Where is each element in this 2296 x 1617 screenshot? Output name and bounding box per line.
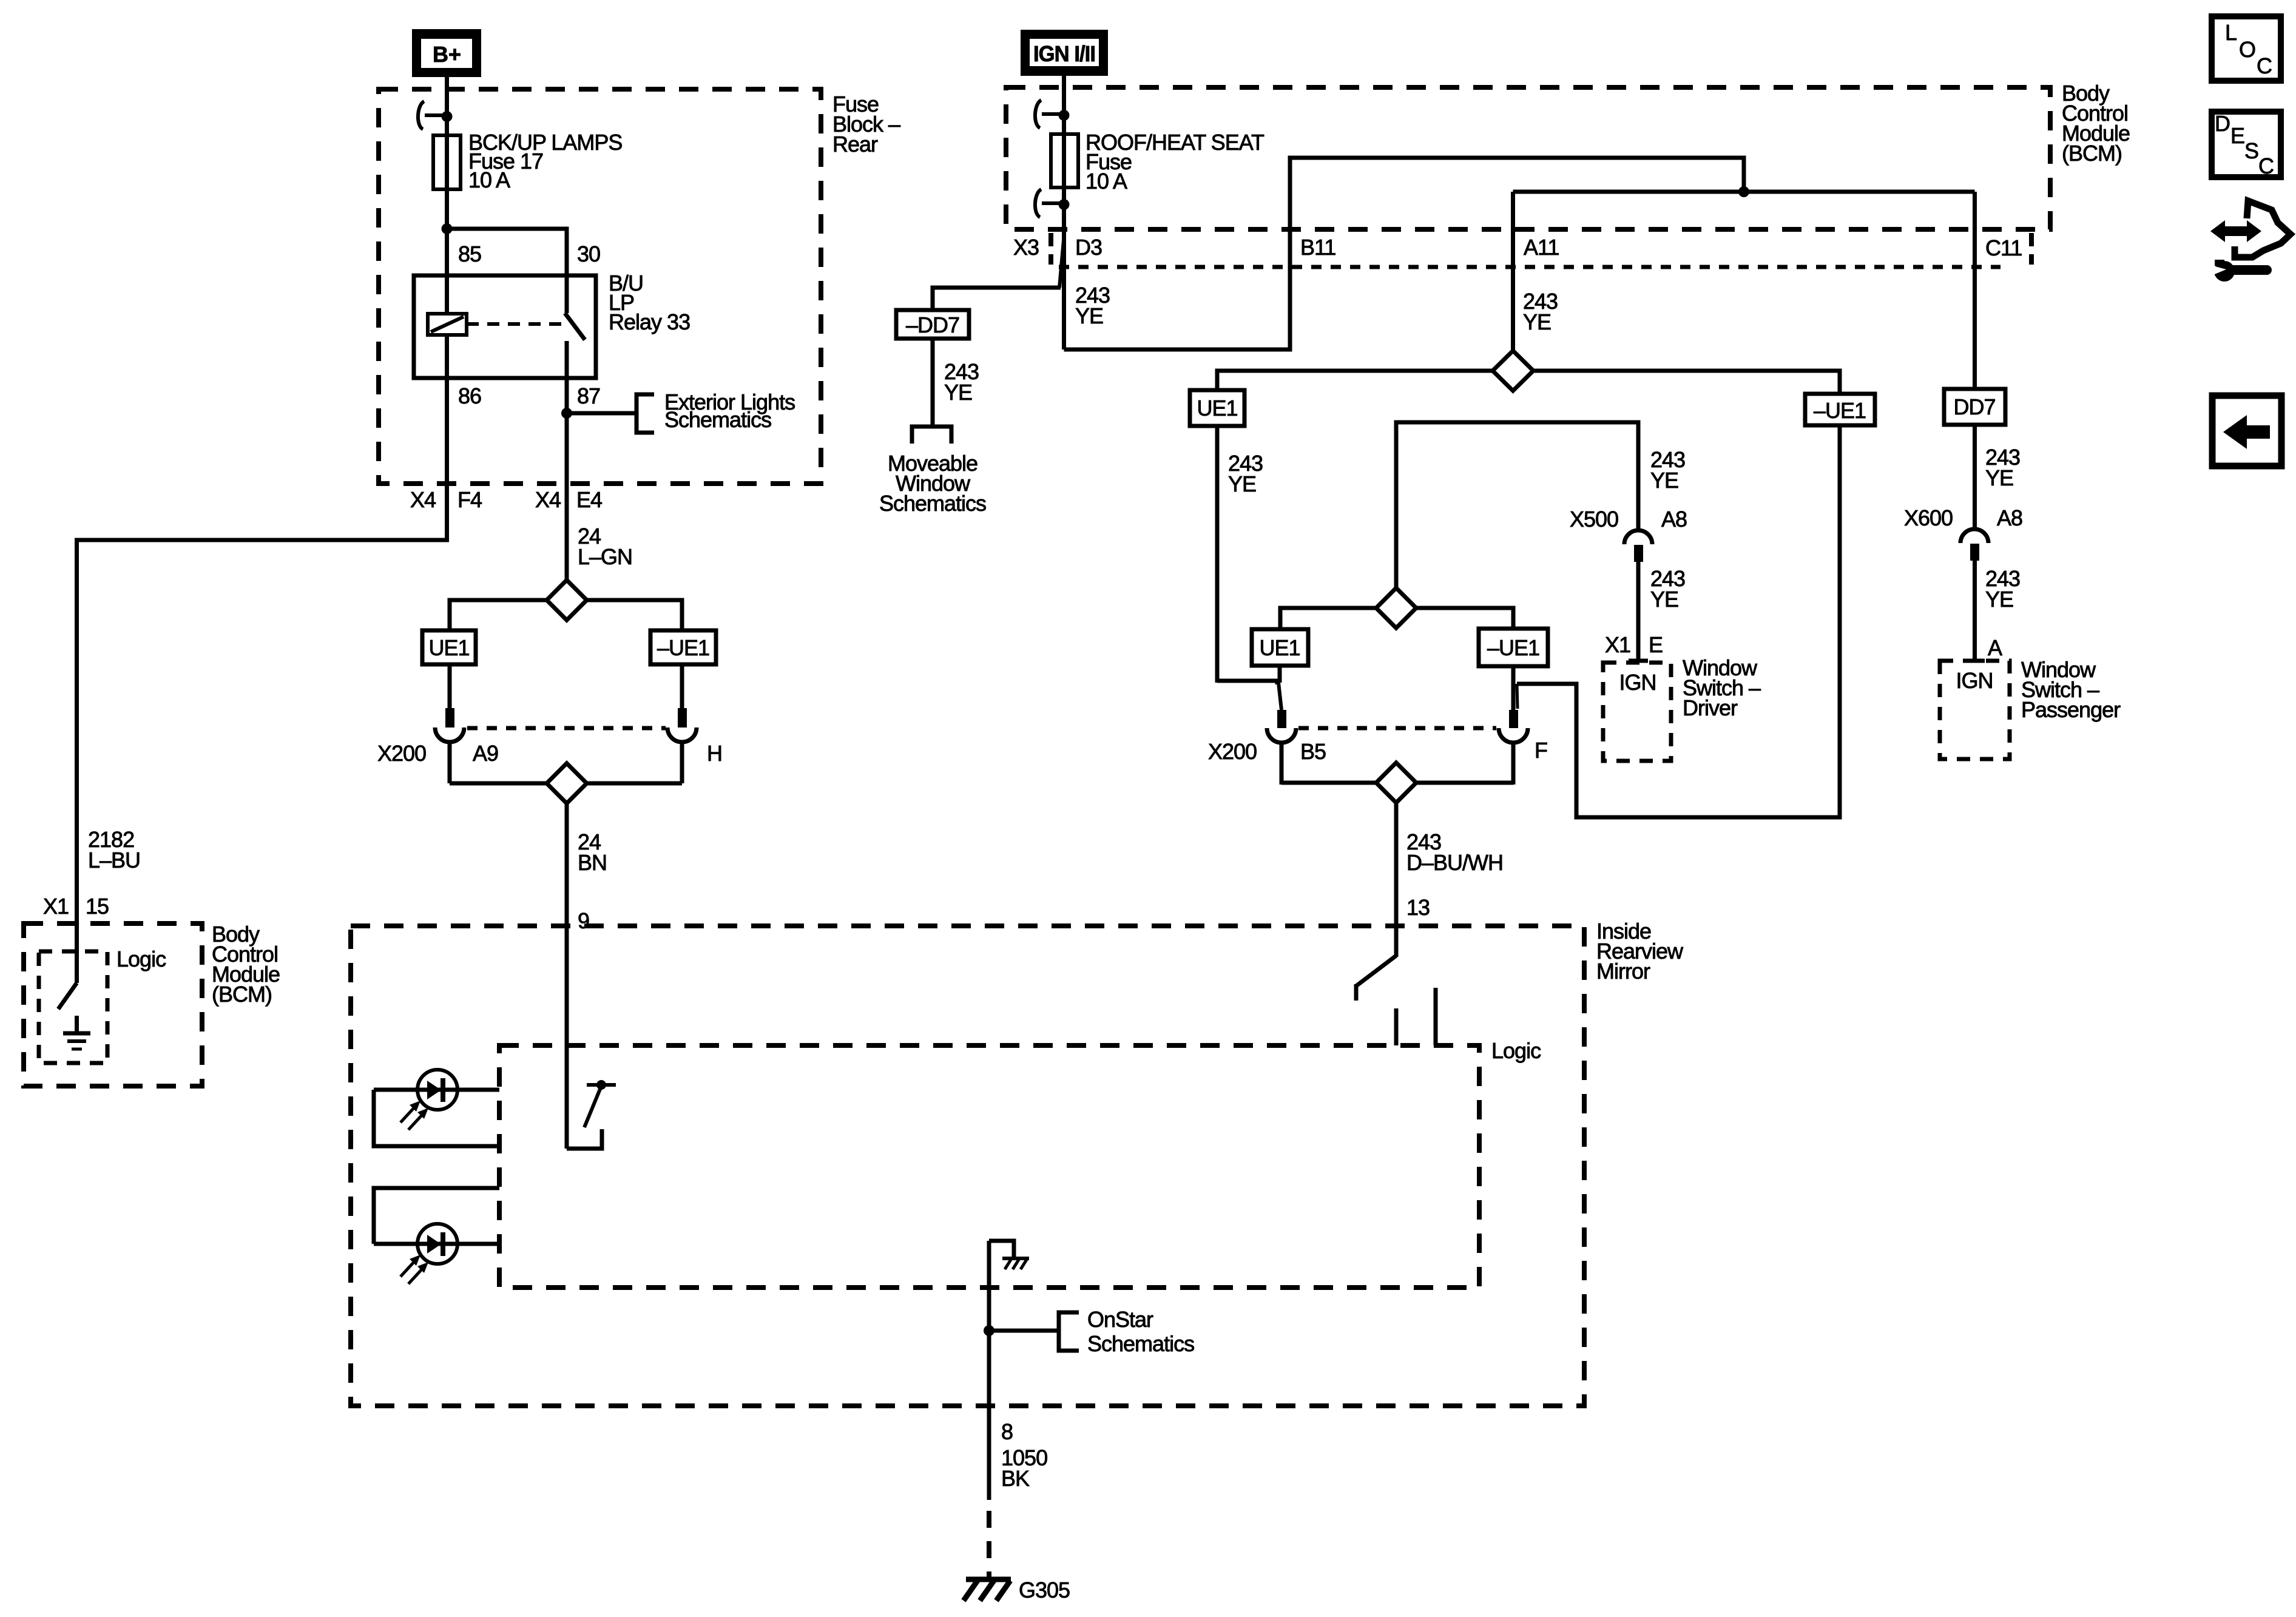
- photocell PC1 arrows: [400, 1101, 428, 1130]
- svg-text:A9: A9: [473, 741, 498, 766]
- mirror internal ground: [989, 1241, 1029, 1269]
- junction node onstar: [984, 1325, 994, 1336]
- svg-text:87: 87: [577, 383, 600, 408]
- label Body Control Module (BCM) right: [2062, 81, 2130, 166]
- wire -UE1 (2) stub: [1511, 666, 1516, 710]
- connector X200 pin A9: [435, 664, 464, 783]
- svg-text:L–GN: L–GN: [578, 544, 632, 569]
- svg-text:Logic: Logic: [116, 947, 166, 971]
- svg-text:–UE1: –UE1: [1487, 635, 1539, 660]
- off-page bracket moveable window: [912, 427, 951, 444]
- relay switch contact 87: [565, 341, 569, 378]
- connector labels X200 A9 H: [377, 741, 722, 766]
- svg-text:X4: X4: [410, 487, 436, 512]
- splice diamond S3: [1493, 351, 1533, 391]
- BCM connector dotted line: [1059, 265, 2001, 269]
- mirror pin 9 switch: [567, 1080, 616, 1149]
- wire PC1 lower link: [374, 1090, 499, 1146]
- wire PC2 upper link: [374, 1188, 499, 1244]
- label B/U LP Relay 33: [609, 271, 690, 334]
- svg-text:IGN I/II: IGN I/II: [1033, 41, 1095, 66]
- BCM internal bus A11-C11: [1513, 190, 1975, 194]
- X3 connector divider: [1048, 233, 1053, 265]
- svg-text:X1: X1: [1605, 632, 1630, 657]
- component code box UE1: [422, 630, 476, 664]
- wire 24 BN down: [565, 803, 569, 1149]
- svg-text:F4: F4: [458, 487, 482, 512]
- wire 2182 L-BU to BCM: [77, 540, 447, 954]
- wire UE1 (A) down: [1215, 426, 1220, 683]
- svg-text:B11: B11: [1300, 235, 1335, 260]
- component code box -DD7: [896, 310, 969, 339]
- svg-text:Passenger: Passenger: [2021, 697, 2121, 722]
- wire label 243 YE (X600): [1985, 566, 2020, 612]
- icon box back arrow: [2212, 396, 2281, 466]
- wire -DD7 down: [931, 339, 935, 427]
- svg-text:Schematics: Schematics: [664, 407, 771, 432]
- wire label 243 YE (DD7): [1985, 445, 2020, 490]
- BCM left dashed box: [24, 923, 202, 1086]
- wire ground 1050 BK: [987, 1241, 991, 1500]
- label Window Switch - Passenger: [2021, 657, 2121, 722]
- label Exterior Lights Schematics: [664, 390, 795, 432]
- wire diamond to UE1 (A): [1217, 371, 1493, 390]
- svg-text:DD7: DD7: [1953, 394, 1995, 419]
- branch to window switch loop: [1517, 425, 1840, 817]
- wire label 243 YE (X500 upper): [1650, 447, 1685, 493]
- svg-text:8: 8: [1001, 1419, 1013, 1444]
- wire to exterior lights ref: [567, 411, 636, 416]
- mirror pin 13 switch: [1356, 926, 1436, 1045]
- BCM logic dashed box: [39, 951, 107, 1063]
- wire label 243 YE (-DD7): [944, 359, 979, 405]
- window switch driver dashed box: [1603, 663, 1671, 761]
- wire fuse down through D3: [1062, 187, 1066, 349]
- svg-text:L: L: [2225, 20, 2237, 45]
- wire A9 to diamond S2: [450, 781, 547, 786]
- svg-text:X3: X3: [1013, 235, 1039, 260]
- ground G305: [964, 1579, 1011, 1601]
- inside rearview mirror dashed box: [351, 926, 1584, 1406]
- wire relay pin 86 down: [445, 335, 449, 542]
- wire branch to -DD7: [933, 237, 1064, 310]
- svg-text:Schematics: Schematics: [879, 491, 986, 516]
- svg-text:A8: A8: [1997, 505, 2022, 530]
- svg-text:85: 85: [458, 241, 481, 266]
- connector labels X600 A8: [1904, 505, 2022, 530]
- connector labels X200 B5 F: [1208, 738, 1547, 764]
- svg-text:A8: A8: [1661, 507, 1687, 532]
- label Body Control Module (BCM) left: [212, 922, 280, 1007]
- wire S4 to UE1 (2): [1280, 608, 1376, 629]
- connector labels X500 A8: [1570, 507, 1687, 532]
- wire diamond to UE1: [450, 600, 547, 630]
- wire dashed to G305: [987, 1511, 991, 1579]
- relay switch blade: [565, 313, 585, 340]
- svg-text:X1: X1: [43, 894, 69, 919]
- svg-text:Logic: Logic: [1491, 1038, 1541, 1063]
- svg-text:B5: B5: [1300, 739, 1326, 764]
- svg-text:D–BU/WH: D–BU/WH: [1406, 850, 1503, 875]
- splice diamond S1: [547, 580, 587, 620]
- BCM dashed box: [1006, 87, 2050, 229]
- wire branch to relay pin 30: [447, 229, 567, 277]
- svg-text:X600: X600: [1904, 505, 1953, 530]
- wire F to diamond S5: [1416, 781, 1513, 785]
- connector X200 dashed line right: [1298, 726, 1496, 731]
- svg-text:9: 9: [578, 908, 589, 933]
- connector X600 pin A8: [1960, 529, 1988, 661]
- pin labels X1 E: [1605, 632, 1663, 657]
- svg-text:X200: X200: [377, 741, 426, 766]
- svg-text:YE: YE: [1985, 465, 2013, 490]
- svg-text:X4: X4: [535, 487, 561, 512]
- icon box LOC: [2212, 16, 2281, 81]
- wire label 243 YE (X500 lower): [1650, 566, 1685, 612]
- connector label X4 F4: [410, 487, 482, 512]
- svg-text:YE: YE: [1985, 587, 2013, 612]
- component code box -UE1: [650, 630, 716, 664]
- relay switch contact 30: [565, 275, 569, 313]
- fuse clip terminal: [418, 101, 453, 129]
- BCM internal switch blade: [75, 954, 79, 983]
- wire C11 down: [1973, 192, 1977, 389]
- wire H to diamond S2: [587, 781, 682, 786]
- wire label 2182 L-BU: [88, 827, 140, 873]
- wire IGN to fuse: [1062, 76, 1066, 134]
- lead-in to B5 blade: [1278, 683, 1281, 710]
- wire B+ to fuse 17: [445, 77, 449, 135]
- wire fuse to junction: [445, 189, 449, 314]
- svg-text:YE: YE: [1075, 303, 1103, 328]
- component code box UE1 (2): [1252, 629, 1308, 666]
- photocell PC2: [374, 1224, 499, 1264]
- svg-text:X500: X500: [1570, 507, 1618, 532]
- svg-text:YE: YE: [944, 380, 972, 405]
- svg-text:A: A: [1988, 635, 2002, 660]
- svg-text:E: E: [1649, 632, 1663, 657]
- pin label X1 15: [43, 894, 109, 919]
- label fuse roof/heat seat: [1086, 130, 1264, 194]
- svg-text:YE: YE: [1650, 587, 1678, 612]
- component code box -UE1 (2): [1479, 629, 1548, 666]
- svg-text:UE1: UE1: [1197, 396, 1237, 420]
- photocell PC1: [374, 1070, 499, 1110]
- splice diamond S5: [1376, 763, 1416, 803]
- junction node bus: [1738, 186, 1749, 197]
- svg-text:Mirror: Mirror: [1596, 959, 1650, 984]
- connector X200 pin B5: [1267, 710, 1296, 785]
- label OnStar Schematics: [1087, 1307, 1194, 1356]
- svg-text:A11: A11: [1524, 235, 1559, 260]
- BCM internal ground: [63, 1016, 90, 1049]
- svg-text:YE: YE: [1523, 309, 1551, 334]
- splice diamond S2: [547, 763, 587, 803]
- connector X200 pin H: [667, 664, 697, 783]
- splice diamond S4: [1376, 588, 1416, 628]
- junction node: [442, 223, 453, 234]
- svg-text:–UE1: –UE1: [1814, 398, 1866, 423]
- icon box DESC: [2212, 111, 2281, 178]
- wire A11 down: [1511, 192, 1515, 351]
- wire S4 to -UE1 (2): [1416, 608, 1513, 629]
- fuse clip terminal upper: [1035, 100, 1070, 128]
- svg-text:Schematics: Schematics: [1087, 1331, 1194, 1356]
- svg-text:UE1: UE1: [1259, 635, 1300, 660]
- wire label 243 D-BU/WH: [1406, 829, 1503, 875]
- wire diamond to -UE1 (B): [1533, 371, 1840, 394]
- svg-text:(BCM): (BCM): [2062, 141, 2122, 166]
- svg-text:D: D: [2215, 111, 2230, 136]
- svg-text:X200: X200: [1208, 739, 1257, 764]
- svg-text:86: 86: [458, 383, 481, 408]
- svg-text:E: E: [2230, 123, 2244, 148]
- svg-text:(BCM): (BCM): [212, 982, 272, 1007]
- Fuse Block - Rear dashed box: [379, 89, 821, 484]
- fuse clip terminal lower: [1035, 189, 1070, 217]
- connector X200 dashed line: [467, 726, 666, 731]
- label Moveable Window Schematics: [879, 451, 986, 516]
- svg-text:IGN: IGN: [1619, 670, 1656, 695]
- wire label 1050 BK: [1001, 1445, 1047, 1491]
- svg-text:13: 13: [1406, 895, 1430, 920]
- svg-text:–UE1: –UE1: [657, 635, 709, 660]
- wire label 243 YE (UE1 A): [1228, 451, 1263, 496]
- svg-text:Driver: Driver: [1683, 695, 1738, 720]
- wire DD7 to X600: [1973, 425, 1977, 529]
- wire D3 to B11 bus: [1064, 158, 1744, 349]
- window switch passenger dashed box: [1940, 661, 2010, 759]
- svg-text:C: C: [2258, 154, 2274, 178]
- wire diamond to -UE1: [587, 600, 682, 630]
- icon vehicle double arrow: [2210, 201, 2291, 257]
- svg-text:10 A: 10 A: [468, 167, 510, 192]
- off-page bracket onstar: [1059, 1312, 1079, 1351]
- junction node 87: [561, 408, 572, 419]
- svg-text:E4: E4: [576, 487, 602, 512]
- wire relay pin 87 / E4: [565, 378, 569, 582]
- fuse F17 BCK/UP LAMPS: [433, 135, 461, 189]
- fuse ROOF/HEAT SEAT: [1051, 134, 1078, 187]
- C11 connector divider: [2029, 233, 2034, 265]
- svg-text:UE1: UE1: [428, 635, 469, 660]
- wire UE1 (2) stub: [1278, 666, 1282, 683]
- svg-text:Relay 33: Relay 33: [609, 309, 690, 334]
- wire label 24 L-GN: [578, 524, 632, 569]
- mirror logic dashed box: [499, 1045, 1479, 1288]
- power feed B+: [412, 29, 481, 77]
- wire B5 to diamond S5: [1281, 781, 1376, 785]
- label Fuse Block - Rear: [832, 92, 900, 157]
- off-page bracket exterior lights: [636, 394, 654, 433]
- svg-text:IGN: IGN: [1956, 668, 1993, 693]
- component code box UE1 (A): [1190, 390, 1244, 426]
- wire label 24 BN: [578, 829, 607, 875]
- label Inside Rearview Mirror: [1596, 919, 1684, 984]
- connector X500 pin A8: [1624, 530, 1652, 661]
- wire label 243 YE (A11): [1523, 289, 1558, 334]
- connector X200 pin F: [1499, 710, 1528, 785]
- label fuse 17: [468, 130, 622, 192]
- relay coil: [428, 314, 467, 335]
- wire to onstar ref: [989, 1329, 1059, 1333]
- connector label X4 E4: [535, 487, 602, 512]
- svg-text:G305: G305: [1019, 1578, 1070, 1602]
- svg-text:C: C: [2257, 53, 2272, 78]
- wire S4 to X500 loop: [1396, 422, 1638, 588]
- svg-text:F: F: [1535, 738, 1547, 763]
- wire UE1 (A) to B5: [1217, 681, 1277, 684]
- svg-text:15: 15: [86, 894, 109, 919]
- svg-text:O: O: [2239, 37, 2255, 62]
- component code box -UE1 (B): [1805, 394, 1875, 425]
- svg-text:BN: BN: [578, 850, 607, 875]
- power feed IGN I/II: [1021, 30, 1108, 76]
- svg-text:S: S: [2244, 138, 2258, 163]
- wire label 243 YE (D3): [1075, 283, 1110, 328]
- relay R33 box: [414, 275, 596, 378]
- svg-text:OnStar: OnStar: [1087, 1307, 1153, 1332]
- svg-text:YE: YE: [1228, 471, 1256, 496]
- wire 243 D-BU/WH down: [1394, 803, 1399, 957]
- pin labels X3 D3: [1013, 235, 1102, 260]
- svg-text:YE: YE: [1650, 468, 1678, 493]
- label Window Switch - Driver: [1683, 655, 1761, 720]
- svg-text:30: 30: [577, 241, 600, 266]
- svg-text:D3: D3: [1075, 235, 1102, 260]
- svg-text:–DD7: –DD7: [906, 312, 959, 337]
- relay coil-switch dashed link: [467, 322, 563, 326]
- component code box DD7: [1944, 389, 2005, 425]
- svg-text:10 A: 10 A: [1086, 169, 1127, 194]
- svg-text:Rear: Rear: [832, 132, 878, 157]
- photocell PC2 arrows: [400, 1255, 428, 1284]
- svg-text:H: H: [707, 741, 722, 766]
- svg-text:C11: C11: [1985, 235, 2022, 260]
- icon wrench: [2210, 260, 2272, 282]
- svg-text:B+: B+: [433, 42, 461, 67]
- svg-text:BK: BK: [1001, 1466, 1030, 1491]
- svg-text:L–BU: L–BU: [88, 848, 140, 873]
